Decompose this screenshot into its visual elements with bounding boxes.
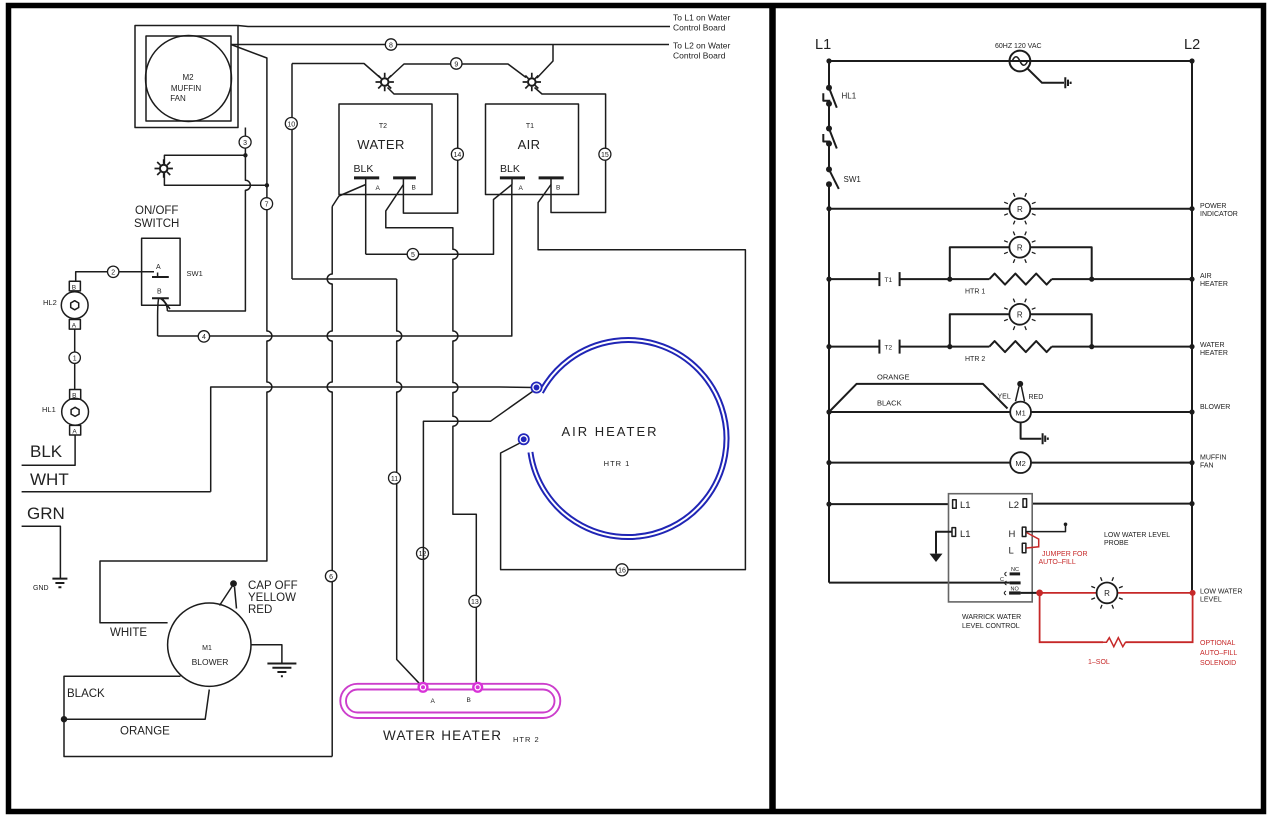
wire BLK	[22, 435, 76, 465]
svg-text:MUFFIN: MUFFIN	[171, 84, 201, 93]
svg-text:L2: L2	[1184, 37, 1200, 53]
red jumper H to L	[1027, 533, 1039, 549]
wire switch B to wire3	[161, 299, 168, 312]
muffin fan M2	[135, 26, 238, 128]
terminal H	[1009, 527, 1026, 540]
svg-text:3: 3	[243, 140, 247, 147]
svg-text:OPTIONAL: OPTIONAL	[1200, 640, 1236, 647]
svg-text:AIR HEATER: AIR HEATER	[561, 424, 658, 439]
svg-text:9: 9	[454, 61, 458, 68]
wire warrick L2 rung	[1032, 503, 1192, 505]
svg-text:FAN: FAN	[170, 94, 186, 103]
wire 4	[158, 185, 512, 337]
svg-text:H: H	[1009, 529, 1016, 540]
wire label 8	[385, 39, 396, 50]
indicator lamp DS1	[155, 159, 173, 177]
svg-text:T1: T1	[526, 123, 534, 130]
wire 6 black riser	[64, 207, 332, 757]
svg-text:A: A	[156, 264, 161, 271]
wire 12	[417, 547, 429, 559]
wire 7 WHITE riser	[100, 45, 272, 623]
svg-text:T1: T1	[885, 277, 893, 284]
wire warrick L1 rung	[829, 503, 949, 505]
svg-text:LEVEL: LEVEL	[1200, 597, 1222, 604]
warrick water level control box	[949, 494, 1033, 602]
svg-text:WATER HEATER: WATER HEATER	[383, 728, 502, 743]
svg-text:AIR: AIR	[1200, 273, 1212, 280]
contact T1	[879, 272, 899, 286]
svg-text:M2: M2	[182, 73, 194, 82]
svg-text:WATER: WATER	[1200, 342, 1225, 349]
contact NO	[1004, 587, 1020, 596]
svg-text:B: B	[412, 185, 416, 192]
svg-text:15: 15	[601, 152, 609, 159]
wire NO to node	[1021, 592, 1038, 594]
svg-text:AUTO–FILL: AUTO–FILL	[1200, 650, 1237, 657]
svg-text:WARRICK WATER: WARRICK WATER	[962, 614, 1021, 621]
svg-text:16: 16	[618, 568, 626, 575]
svg-text:A: A	[376, 185, 381, 192]
svg-text:HEATER: HEATER	[1200, 281, 1228, 288]
svg-text:4: 4	[202, 334, 206, 341]
svg-text:SW1: SW1	[844, 175, 862, 184]
wire GRN	[22, 526, 61, 578]
wire L1 rail	[828, 61, 830, 583]
svg-text:B: B	[556, 185, 560, 192]
svg-text:BLACK: BLACK	[877, 399, 902, 408]
svg-text:L1: L1	[960, 529, 971, 540]
wire 16 T1-B loop to air heater lower terminal	[501, 185, 746, 570]
wire WHT	[22, 491, 211, 493]
wire WHT to air heater top terminal	[211, 387, 534, 492]
svg-text:MUFFIN: MUFFIN	[1200, 455, 1226, 462]
contact T2	[879, 340, 899, 354]
wire air heater rung	[829, 278, 1192, 280]
terminal L1 top	[953, 500, 971, 511]
wire L1 mid to ground	[936, 532, 952, 554]
svg-text:JUMPER FOR: JUMPER FOR	[1042, 551, 1088, 558]
ground at AC source	[1028, 69, 1071, 89]
svg-text:T2: T2	[885, 345, 893, 352]
svg-text:R: R	[1017, 244, 1023, 253]
svg-text:SOLENOID: SOLENOID	[1200, 660, 1236, 667]
wire 3 fan to switch B	[167, 128, 250, 312]
cap YEL RED	[998, 381, 1044, 401]
air heater HTR 1	[518, 338, 729, 539]
svg-text:POWER: POWER	[1200, 203, 1226, 210]
svg-text:HTR 1: HTR 1	[604, 459, 631, 468]
wire power indicator rung	[829, 208, 1192, 210]
node red junction	[1036, 590, 1043, 597]
svg-text:B: B	[467, 697, 471, 704]
svg-text:ORANGE: ORANGE	[877, 373, 910, 382]
svg-text:10: 10	[287, 121, 295, 128]
contact C	[1000, 577, 1021, 585]
svg-text:A: A	[72, 429, 77, 436]
svg-text:RED: RED	[248, 604, 272, 616]
node junction black orange	[61, 716, 67, 722]
svg-text:BLACK: BLACK	[67, 688, 105, 700]
svg-text:To L2 on Water: To L2 on Water	[673, 41, 730, 51]
wire 2 HL2 to switch A	[76, 272, 154, 282]
svg-text:8: 8	[389, 42, 393, 49]
svg-text:13: 13	[471, 599, 479, 606]
water heater HTR 2	[340, 682, 560, 744]
svg-text:Control Board: Control Board	[673, 23, 726, 33]
svg-text:R: R	[1017, 205, 1023, 214]
pilot light HL1	[42, 390, 89, 436]
svg-text:INDICATOR: INDICATOR	[1200, 211, 1238, 218]
svg-text:FAN: FAN	[1200, 463, 1214, 470]
blower M1	[168, 603, 251, 686]
ground GND	[33, 579, 67, 592]
motor M2	[1010, 452, 1031, 473]
resistor HTR 2	[989, 341, 1051, 352]
svg-text:A: A	[431, 698, 436, 705]
switch SW1	[826, 166, 861, 189]
lamp R water heater	[1004, 299, 1035, 330]
splice J1	[376, 73, 394, 91]
terminal L1 mid	[952, 528, 971, 540]
wire water heater lamp branch	[950, 314, 1092, 346]
breaker HL2	[823, 126, 837, 149]
svg-text:SWITCH: SWITCH	[134, 218, 179, 230]
wire T2-B diagonal branch down	[386, 185, 477, 688]
svg-text:GRN: GRN	[27, 504, 65, 523]
svg-text:HTR 2: HTR 2	[513, 735, 540, 744]
wire water heater rung	[829, 346, 1192, 348]
svg-text:5: 5	[411, 252, 415, 259]
svg-text:M1: M1	[202, 645, 212, 652]
svg-text:7: 7	[265, 202, 269, 209]
svg-text:BLK: BLK	[354, 163, 374, 175]
svg-text:YELLOW: YELLOW	[248, 592, 296, 604]
wire L2 rail	[1191, 61, 1193, 593]
wire to L2 on Water Control Board	[231, 44, 669, 46]
svg-text:A: A	[519, 185, 524, 192]
svg-text:SW1: SW1	[187, 269, 203, 278]
svg-text:BLK: BLK	[30, 442, 63, 461]
panel divider	[769, 6, 776, 811]
svg-text:HTR 2: HTR 2	[965, 356, 985, 363]
svg-text:R: R	[1104, 589, 1110, 598]
lamp R power indicator	[1004, 193, 1035, 224]
svg-text:WATER: WATER	[357, 137, 405, 152]
resistor HTR 1	[989, 274, 1051, 285]
svg-text:ON/OFF: ON/OFF	[135, 205, 178, 217]
contact NC	[1005, 567, 1020, 576]
ground at blower	[251, 645, 296, 677]
svg-text:11: 11	[391, 476, 398, 483]
motor M1	[1010, 402, 1031, 423]
wire lamp branch	[164, 155, 267, 185]
wire T2-A diagonal to riser 6	[332, 185, 366, 207]
svg-text:BLOWER: BLOWER	[1200, 404, 1230, 411]
transformer T2	[339, 104, 432, 195]
svg-text:L2: L2	[1009, 500, 1020, 511]
ground at M1	[1021, 422, 1048, 444]
AC source 60HZ 120 VAC	[995, 43, 1042, 71]
wire 11	[397, 279, 423, 687]
wire 1	[74, 329, 76, 389]
wire muffin fan rung	[829, 462, 1192, 464]
transformer T1	[486, 104, 579, 195]
svg-text:AIR: AIR	[518, 137, 541, 152]
svg-text:HL1: HL1	[842, 92, 857, 101]
svg-text:BLK: BLK	[500, 163, 520, 175]
svg-text:RED: RED	[1029, 394, 1044, 401]
svg-text:14: 14	[454, 152, 462, 159]
wire 13 heater top terminal to water heater B	[423, 389, 536, 687]
breaker HL1	[823, 85, 856, 108]
ON/OFF switch SW1	[134, 205, 203, 309]
svg-text:PROBE: PROBE	[1104, 540, 1129, 547]
svg-text:WHT: WHT	[30, 470, 69, 489]
wire 9	[292, 64, 380, 78]
svg-text:A: A	[72, 323, 77, 330]
svg-text:ORANGE: ORANGE	[120, 726, 170, 738]
wire 14 from splice J1 to T2-B	[388, 88, 458, 214]
wire air heater lamp branch	[950, 247, 1092, 279]
svg-text:12: 12	[419, 551, 427, 558]
lamp R low water level	[1091, 577, 1122, 608]
svg-text:R: R	[1017, 311, 1023, 320]
svg-text:T2: T2	[379, 123, 387, 130]
node junction at wire 3	[243, 153, 247, 157]
svg-text:Control Board: Control Board	[673, 51, 726, 61]
svg-text:L: L	[1009, 546, 1014, 557]
svg-text:L1: L1	[815, 37, 831, 53]
wire blower ORANGE jog	[829, 384, 1008, 412]
wire red low water level	[1040, 592, 1193, 594]
wire L1 to contact C	[829, 582, 1010, 584]
pilot light HL2	[43, 281, 88, 329]
svg-text:CAP OFF: CAP OFF	[248, 580, 298, 592]
wire H to probe	[1026, 526, 1066, 532]
svg-text:C: C	[1000, 577, 1004, 583]
svg-text:HEATER: HEATER	[1200, 350, 1228, 357]
cap off yellow red wire	[220, 580, 298, 616]
svg-text:B: B	[157, 289, 162, 296]
svg-text:60HZ 120 VAC: 60HZ 120 VAC	[995, 43, 1042, 50]
wire to L1 on Water Control Board	[238, 26, 670, 27]
svg-text:LEVEL CONTROL: LEVEL CONTROL	[962, 623, 1020, 630]
svg-text:1–SOL: 1–SOL	[1088, 659, 1110, 666]
wire 10	[292, 64, 397, 280]
svg-text:6: 6	[329, 574, 333, 581]
svg-text:2: 2	[111, 270, 115, 277]
svg-text:HL2: HL2	[43, 298, 57, 307]
svg-text:AUTO–FILL: AUTO–FILL	[1039, 559, 1076, 566]
svg-text:NC: NC	[1011, 567, 1019, 573]
wire top rail	[829, 60, 1192, 62]
svg-text:L1: L1	[960, 500, 971, 511]
wire 15 T1-B to splice J2	[535, 88, 606, 213]
svg-text:B: B	[72, 285, 76, 292]
svg-text:1: 1	[73, 356, 77, 363]
terminal L	[1009, 543, 1026, 556]
ground triangle	[930, 554, 943, 562]
wire ORANGE	[64, 690, 209, 720]
svg-text:HTR 1: HTR 1	[965, 289, 985, 296]
svg-text:YEL: YEL	[998, 394, 1011, 401]
svg-text:WHITE: WHITE	[110, 627, 147, 639]
wire BLACK	[64, 676, 181, 719]
svg-text:HL1: HL1	[42, 405, 56, 414]
splice J2	[523, 73, 541, 91]
svg-text:GND: GND	[33, 585, 49, 592]
svg-text:LOW WATER: LOW WATER	[1200, 589, 1242, 596]
node junction lamp to wire 7	[265, 183, 269, 187]
wire branch L2 to splice J2	[537, 45, 553, 79]
svg-text:BLOWER: BLOWER	[192, 657, 229, 667]
wire blower rung BLACK	[829, 411, 1192, 413]
lamp R air heater	[1004, 232, 1035, 263]
terminal L2 top	[1009, 499, 1027, 511]
svg-text:LOW WATER LEVEL: LOW WATER LEVEL	[1104, 532, 1170, 539]
wire 5 T2-A to T1-A	[366, 185, 512, 255]
svg-text:M2: M2	[1015, 459, 1025, 468]
svg-text:To L1 on Water: To L1 on Water	[673, 13, 730, 23]
solenoid 1-SOL	[1103, 638, 1129, 647]
svg-text:M1: M1	[1015, 408, 1025, 417]
wire red solenoid loop	[1040, 593, 1193, 642]
